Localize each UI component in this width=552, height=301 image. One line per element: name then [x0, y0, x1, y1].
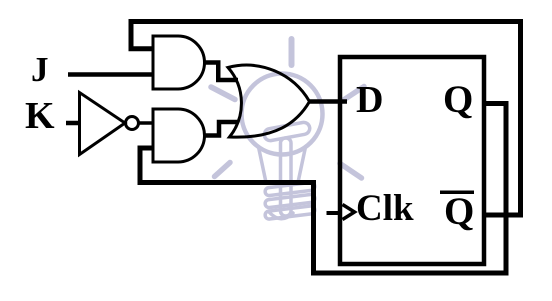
wire: Q feedback (right side down, bottom, into bottom AND lower input) [140, 104, 506, 274]
bulb stem [281, 138, 292, 216]
bulb flash bar [263, 121, 310, 141]
svg-text:K: K [25, 95, 55, 137]
ray lower-right [340, 164, 362, 179]
wire: Qbar feedback (top loop into top AND upper input) [131, 22, 521, 216]
wire: OR output to D input [308, 99, 347, 104]
OR gate U3 [228, 65, 310, 137]
D flip-flop box U4 [340, 57, 484, 264]
watermark light bulb [211, 39, 364, 220]
wire: Clk stub [327, 211, 342, 215]
AND gate U2 (bottom, Kbar·Q) [153, 109, 205, 162]
wire: AND2 output step to OR bottom input [203, 122, 239, 136]
wire: AND1 output step to OR top input [203, 63, 238, 81]
ray upper-left [211, 87, 235, 100]
NOT gate (inverter) [80, 93, 139, 155]
wire: NOT output to AND2 [138, 121, 153, 125]
wire: J input [68, 72, 153, 77]
bulb glass [242, 74, 323, 155]
bulb base cap [269, 212, 293, 219]
svg-text:Clk: Clk [356, 188, 414, 229]
AND gate U1 (top, J·Qbar) [153, 36, 205, 89]
svg-text:J: J [31, 50, 49, 89]
bulb screw rungs [265, 182, 316, 196]
ray top [289, 39, 295, 65]
ray upper-right [342, 87, 364, 102]
wire: K input [66, 121, 79, 126]
svg-text:D: D [356, 79, 383, 121]
Qbar overline [440, 191, 474, 195]
svg-text:Q: Q [444, 190, 474, 233]
Clk edge-trigger arrow [343, 205, 355, 220]
svg-text:Q: Q [443, 78, 473, 121]
ray lower-left [215, 163, 231, 177]
